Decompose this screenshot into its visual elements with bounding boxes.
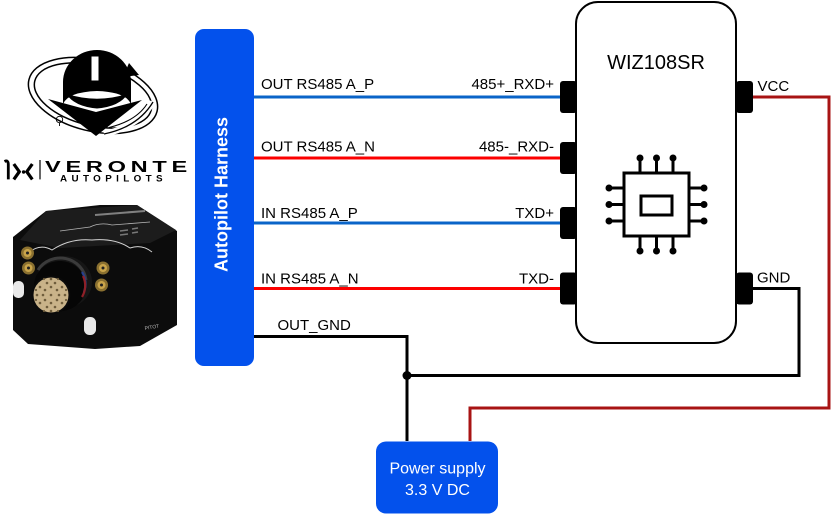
svg-text:WIZ108SR: WIZ108SR	[607, 52, 705, 74]
veronte logo helmet lower lip	[66, 94, 128, 109]
svg-text:TXD-: TXD-	[519, 271, 554, 288]
svg-text:OUT RS485 A_P: OUT RS485 A_P	[261, 76, 374, 93]
autopilot photo: white caps	[13, 281, 24, 298]
autopilot photo: top engraving	[60, 222, 150, 231]
svg-text:OUT RS485 A_N: OUT RS485 A_N	[261, 139, 375, 156]
autopilot photo: SMA connectors	[21, 247, 110, 292]
wire IN RS485 A_P (blue)	[254, 222, 561, 225]
svg-text:Autopilot Harness: Autopilot Harness	[212, 117, 232, 272]
svg-text:VCC: VCC	[758, 78, 790, 95]
veronte logo trademark bulb	[56, 116, 62, 126]
veronte wordmark symbol	[5, 160, 41, 179]
veronte logo swirl ring	[20, 45, 165, 146]
autopilot harness block	[195, 29, 254, 366]
svg-text:AUTOPILOTS: AUTOPILOTS	[60, 173, 167, 183]
veronte logo ribbon over arrow	[104, 102, 153, 134]
wire OUT RS485 A_P (blue)	[254, 96, 561, 99]
svg-text:IN RS485 A_P: IN RS485 A_P	[261, 205, 358, 222]
autopilot photo: connector face	[32, 276, 71, 315]
power supply block	[376, 442, 498, 514]
svg-text:GND: GND	[757, 270, 791, 287]
veronte logo ring arrowhead	[123, 63, 139, 77]
pin TXD+	[560, 207, 577, 239]
autopilot photo: connector barrel	[36, 256, 92, 308]
autopilot photo: body silhouette	[13, 205, 177, 349]
svg-text:3.3 V DC: 3.3 V DC	[405, 482, 470, 499]
svg-text:485+_RXD+: 485+_RXD+	[471, 76, 554, 93]
svg-text:IN RS485 A_N: IN RS485 A_N	[261, 271, 359, 288]
wire VCC (dark red)	[470, 97, 829, 441]
svg-text:TXD+: TXD+	[515, 205, 554, 222]
junction node	[403, 371, 412, 380]
module WIZ108SR body	[576, 2, 736, 343]
autopilot photo: scallop edge	[28, 240, 152, 253]
veronte logo arrow	[48, 99, 142, 136]
pin 485+_RXD+	[560, 81, 577, 113]
wire OUT_GND (black)	[254, 337, 407, 442]
pin TXD-	[560, 273, 577, 305]
chip icon U1	[606, 155, 708, 255]
pin 485-_RXD-	[560, 142, 577, 174]
svg-text:OUT_GND: OUT_GND	[278, 317, 352, 334]
veronte logo helmet dome	[63, 50, 131, 104]
svg-text:Power supply: Power supply	[389, 461, 485, 478]
wire IN RS485 A_N (red)	[254, 287, 561, 290]
wire OUT RS485 A_N (red)	[254, 157, 561, 160]
wire GND return (black)	[407, 289, 799, 376]
pin GND	[736, 273, 753, 305]
pin VCC	[736, 81, 753, 113]
autopilot photo: top face	[20, 205, 176, 248]
svg-text:485-_RXD-: 485-_RXD-	[479, 139, 554, 156]
veronte logo helmet slot	[92, 57, 99, 81]
